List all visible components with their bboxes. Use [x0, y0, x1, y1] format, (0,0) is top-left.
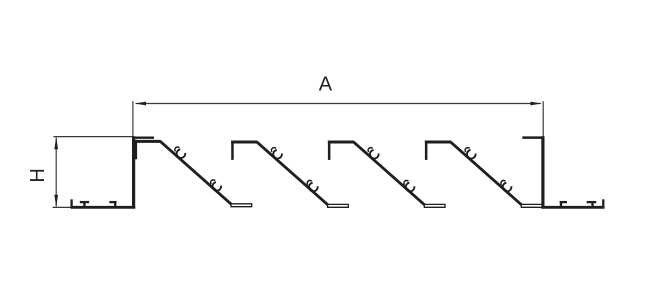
svg-text:H: H: [27, 168, 49, 182]
svg-text:A: A: [319, 74, 333, 96]
